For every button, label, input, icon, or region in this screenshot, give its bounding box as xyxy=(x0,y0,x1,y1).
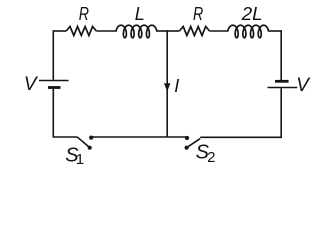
switch S2 terminal dot xyxy=(185,136,189,140)
wire right vertical lower xyxy=(280,88,282,138)
svg-text:I: I xyxy=(174,76,179,96)
battery V1 short plate xyxy=(48,86,61,89)
wire top junction to R2 xyxy=(167,30,179,32)
wire between R1 and L xyxy=(96,30,116,32)
wire bottom-left segment xyxy=(53,136,78,138)
wire bottom-right segment xyxy=(200,136,281,138)
battery V2 short plate xyxy=(275,80,289,83)
wire between R2 and 2L xyxy=(210,30,229,32)
svg-text:R: R xyxy=(79,4,89,24)
wire bottom between middle junction and S2 xyxy=(167,136,187,138)
resistor R1 (left R) xyxy=(66,27,96,36)
inductor L1 (L) xyxy=(116,25,157,38)
inductor L2 (2L) xyxy=(228,25,269,38)
battery V1 long plate xyxy=(39,80,69,82)
wire right vertical upper xyxy=(280,30,282,80)
svg-text:L: L xyxy=(135,4,145,24)
wire top-left segment xyxy=(53,30,66,32)
wire from L to top junction xyxy=(156,30,167,32)
svg-text:V: V xyxy=(24,74,39,95)
current arrow I head xyxy=(164,83,170,91)
switch S1 terminal dot xyxy=(89,136,93,140)
svg-text:2L: 2L xyxy=(241,4,263,24)
battery V2 long plate xyxy=(268,87,298,89)
wire left vertical lower xyxy=(52,88,54,137)
switch S1 blade xyxy=(78,137,90,147)
svg-text:S1: S1 xyxy=(65,145,84,169)
switch S1 blade dot xyxy=(88,146,92,150)
switch S2 pivot dot xyxy=(185,146,189,150)
wire 2L to top-right corner xyxy=(268,30,281,32)
svg-text:V: V xyxy=(296,75,311,96)
switch S2 blade xyxy=(187,139,201,148)
wire bottom middle segment xyxy=(91,136,167,138)
svg-text:S2: S2 xyxy=(196,142,216,166)
wire middle branch vertical xyxy=(166,30,168,137)
wire left vertical upper xyxy=(52,30,54,80)
resistor R2 (right R) xyxy=(179,27,209,36)
svg-text:R: R xyxy=(193,4,203,24)
